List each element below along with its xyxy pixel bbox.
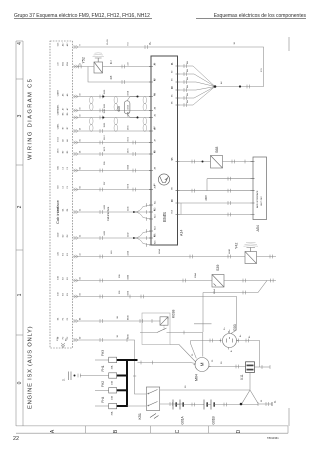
svg-text:A1: A1 <box>154 63 157 65</box>
wire Y42 right stub <box>257 256 277 258</box>
wire row 256.5 cab to Y42 <box>73 256 245 258</box>
battery G01A <box>173 400 176 410</box>
wire EMS to A54 jog <box>180 179 251 191</box>
Y42 spring hatches <box>244 242 259 246</box>
svg-text:A8: A8 <box>154 151 157 153</box>
svg-text:1: 1 <box>17 293 23 296</box>
svg-text:30A: 30A <box>111 411 114 415</box>
G03 pins <box>229 330 231 334</box>
svg-text:10A: 10A <box>111 396 114 400</box>
X11 down legs to battery bus <box>242 372 258 403</box>
svg-text:FH1: FH1 <box>101 365 105 371</box>
EMS full pin numbers <box>154 63 174 244</box>
svg-text:A16: A16 <box>154 241 157 244</box>
svg-text:Y52: Y52 <box>82 57 86 63</box>
svg-text:4: 4 <box>17 42 23 45</box>
svg-text:A14: A14 <box>154 227 157 230</box>
node: B+ junction dot <box>239 85 241 87</box>
G03 feed jog <box>231 330 237 334</box>
wire G03 right to X11 <box>237 341 260 368</box>
ECU box EMS A14 <box>151 56 178 245</box>
wire row 292 from drop <box>203 292 258 294</box>
battery to junction <box>214 404 258 406</box>
svg-text:WIRING DIAGRAM C5: WIRING DIAGRAM C5 <box>28 78 34 160</box>
extra mid-wire labels column 2 <box>80 42 130 339</box>
svg-text:B2: B2 <box>172 71 174 73</box>
svg-text:B3: B3 <box>172 79 174 81</box>
CAN pair 2 wire B <box>73 130 151 132</box>
bottom scale ruler bar <box>16 426 288 433</box>
K038 coil to switch link <box>163 325 165 330</box>
svg-text:608: 608 <box>117 106 121 112</box>
svg-text:A10: A10 <box>154 185 157 188</box>
svg-text:B5: B5 <box>172 95 174 97</box>
K038 switch blade <box>157 328 167 333</box>
svg-text:B9: B9 <box>172 200 174 202</box>
switch S39 <box>212 275 224 288</box>
svg-text:3: 3 <box>17 114 23 117</box>
svg-text:EMS: EMS <box>162 212 167 222</box>
node dot row212 <box>133 211 135 213</box>
splice to FH1 wire <box>80 375 109 377</box>
svg-text:B+30: B+30 <box>107 39 109 45</box>
resistor 608 <box>124 101 130 114</box>
X11 right stub <box>255 366 271 368</box>
solenoid valve Y42 <box>245 248 257 264</box>
wire S68 to A54 <box>223 161 254 163</box>
wire: Y52 return jog <box>88 67 151 83</box>
wire row 167.5 <box>73 170 151 172</box>
svg-text:ENGINE ISX (AUS ONLY): ENGINE ISX (AUS ONLY) <box>28 326 34 409</box>
bus end stub <box>258 403 272 405</box>
wire EMS to A54 row 203 <box>180 202 251 204</box>
relay K51 <box>146 387 159 410</box>
svg-text:B1: B1 <box>172 63 174 65</box>
wire drop x203 to M04 <box>194 293 212 333</box>
fold mark top right <box>288 37 290 51</box>
wire row 280 cab to S39 <box>73 280 212 282</box>
K51 right top wire to X11 leg <box>160 389 250 391</box>
svg-text:0: 0 <box>17 381 23 384</box>
svg-text:A54: A54 <box>256 225 260 231</box>
relay K038 outer box <box>142 313 170 345</box>
wire row 321 cab to K038 coil <box>73 320 160 322</box>
svg-text:T8013361: T8013361 <box>267 436 279 440</box>
svg-text:CANL: CANL <box>57 123 60 129</box>
wire G03 left feed and M04 link <box>191 341 222 359</box>
twisted pair crossovers row2 <box>90 118 94 132</box>
fuse FH4 <box>109 403 117 408</box>
svg-text:22: 22 <box>13 436 19 442</box>
svg-text:CANH: CANH <box>57 109 60 115</box>
twisted pair crossovers row1 <box>90 97 94 111</box>
svg-text:M04: M04 <box>195 374 199 381</box>
thick feed bus <box>117 359 138 406</box>
svg-text:B8: B8 <box>172 187 174 189</box>
wire bus to M04 <box>138 363 196 364</box>
node dot row238 <box>133 237 135 239</box>
svg-text:108A: 108A <box>194 273 197 278</box>
svg-text:A5: A5 <box>154 114 157 116</box>
svg-text:A2: A2 <box>154 79 157 81</box>
wire row 142.5 <box>73 142 151 144</box>
svg-text:2408: 2408 <box>206 195 208 201</box>
svg-text:446A: 446A <box>158 249 161 254</box>
EMS right fan to B+ junction <box>180 66 216 105</box>
svg-text:FH4: FH4 <box>101 396 105 402</box>
M04 terminal ticks <box>194 365 211 367</box>
svg-text:446B: 446B <box>229 249 231 254</box>
node: battery junction dot <box>240 403 243 406</box>
svg-text:A14: A14 <box>180 230 184 236</box>
svg-text:A11: A11 <box>154 201 157 204</box>
wire merge diagonal <box>258 281 276 293</box>
svg-text:10A: 10A <box>111 381 114 385</box>
svg-text:A13: A13 <box>154 215 157 218</box>
svg-text:B-: B- <box>231 350 233 352</box>
fuse FH3 left stub <box>95 359 109 361</box>
CAN pair 1 wire A <box>73 96 151 98</box>
svg-text:A9: A9 <box>154 167 157 169</box>
svg-text:Esquemas eléctricos de los com: Esquemas eléctricos de los componentes <box>214 13 307 19</box>
svg-text:ADR INTERFACE: ADR INTERFACE <box>256 190 259 208</box>
EMS pin number texts <box>154 62 174 237</box>
battery link <box>183 404 204 406</box>
EMS internal symbol circle <box>158 174 169 185</box>
wire row 238 with fan to EMS <box>73 237 134 239</box>
svg-text:Grupo 37 Esquema eléctrico FM9: Grupo 37 Esquema eléctrico FM9, FM12, FH… <box>14 13 150 19</box>
CAN pair 1 wire B <box>73 110 151 112</box>
wire row 340 cab to K51 <box>73 340 146 394</box>
svg-text:D: D <box>236 429 242 433</box>
svg-text:A4: A4 <box>154 107 157 109</box>
left scale ruler bar <box>16 41 23 426</box>
wire M04 right to X11 <box>209 366 246 368</box>
wire row 212 with fan to EMS <box>73 211 134 213</box>
fan pin pairs <box>184 64 187 68</box>
fan wires row238 <box>134 231 151 245</box>
svg-text:CANL: CANL <box>57 104 60 110</box>
cab pins CAN <box>74 95 79 98</box>
G03 terminal ticks <box>220 331 239 350</box>
node dots CAN <box>136 95 138 97</box>
svg-text:UNIT 24V: UNIT 24V <box>261 196 263 206</box>
wire: battery plus top run <box>73 47 264 87</box>
fuse FH1 <box>109 373 117 378</box>
svg-text:A12: A12 <box>154 208 157 211</box>
A54 left pin stubs <box>251 162 255 215</box>
solenoid valve Y52 <box>94 58 103 73</box>
svg-text:C: C <box>175 429 181 433</box>
pin tick on K51 feed drop <box>133 375 136 377</box>
svg-text:A15: A15 <box>154 234 157 237</box>
wire row 187.5 <box>73 189 151 191</box>
wire S39 right to merge <box>224 280 267 282</box>
end terminal mark <box>271 402 273 406</box>
CAN pair 2 wire A <box>73 117 151 119</box>
svg-text:FH3: FH3 <box>101 350 105 356</box>
fuse FH3 <box>109 357 117 362</box>
EMS left pin stubs <box>149 67 153 246</box>
svg-text:B7: B7 <box>172 158 174 160</box>
interface unit A54 <box>253 157 267 220</box>
connector pin at cab boundary, top wire <box>74 45 79 48</box>
cab box bottom exit pin <box>61 343 64 348</box>
resistor taps <box>127 97 137 118</box>
fuse FH2 <box>109 388 117 393</box>
K51 right bottom to battery <box>160 403 184 405</box>
svg-text:G01A: G01A <box>181 415 185 424</box>
fuse value labels <box>111 365 114 415</box>
node dot before S68 <box>202 161 204 163</box>
ruler letters <box>50 429 242 433</box>
EMS right pin stubs <box>176 66 180 215</box>
fan wires row212 <box>134 205 151 219</box>
cab interface dashed boundary box <box>50 41 73 348</box>
svg-text:B6: B6 <box>172 102 174 104</box>
wire EMS to A54 row 214.5 <box>180 214 251 216</box>
splice X15 <box>69 372 72 381</box>
svg-text:Y42: Y42 <box>235 243 239 249</box>
starter motor M04 <box>195 358 209 372</box>
svg-text:109A: 109A <box>213 289 216 294</box>
relay K038 coil <box>160 317 168 325</box>
wire EMS to S68 <box>180 161 211 163</box>
connector X11 <box>246 362 255 373</box>
svg-text:A7: A7 <box>154 139 157 141</box>
pin ticks fan row 238 <box>146 229 148 247</box>
link between EMS right pins 203-215 <box>180 203 182 215</box>
svg-text:A6: A6 <box>154 128 157 130</box>
svg-text:S39: S39 <box>216 265 220 271</box>
svg-text:FH2: FH2 <box>101 381 105 387</box>
svg-text:K51: K51 <box>138 413 142 419</box>
svg-text:M: M <box>200 362 205 366</box>
wire: cab to Y52 left <box>73 66 94 68</box>
K51 actuator mark <box>150 414 159 419</box>
wire K038 box to M04 diagonal <box>170 345 196 363</box>
battery G01B <box>204 400 207 410</box>
svg-text:G01B: G01B <box>212 416 216 424</box>
pin pair on top wire <box>145 45 148 49</box>
cab side tiny wire designation labels <box>57 42 70 340</box>
svg-text:10A: 10A <box>111 365 114 369</box>
Y52 spring hatches <box>93 53 105 57</box>
svg-text:CANH: CANH <box>57 90 60 96</box>
svg-text:S68: S68 <box>215 147 219 153</box>
svg-text:X11: X11 <box>240 374 244 380</box>
wire row 296.5 cab to G03 feed <box>73 297 237 331</box>
svg-text:B4: B4 <box>172 87 174 89</box>
ruler numbers <box>17 42 23 385</box>
wire: Y52 right to EMS pin <box>103 66 152 68</box>
K038 switch row <box>140 333 203 357</box>
pin ticks fan row 212 <box>146 203 148 221</box>
bus to K51 bottom <box>127 405 146 407</box>
svg-text:B10: B10 <box>172 210 174 213</box>
svg-text:Cab interface: Cab interface <box>107 206 110 221</box>
svg-text:A3: A3 <box>154 93 157 95</box>
pin pair after junction <box>247 85 250 89</box>
switch S68 <box>211 156 223 169</box>
wire row 154 <box>73 153 151 155</box>
fold mark bottom right <box>288 408 290 426</box>
svg-text:2: 2 <box>17 205 23 208</box>
node: fan junction dot <box>214 85 217 88</box>
svg-text:K038: K038 <box>172 310 176 318</box>
alternator G03 <box>223 334 237 348</box>
